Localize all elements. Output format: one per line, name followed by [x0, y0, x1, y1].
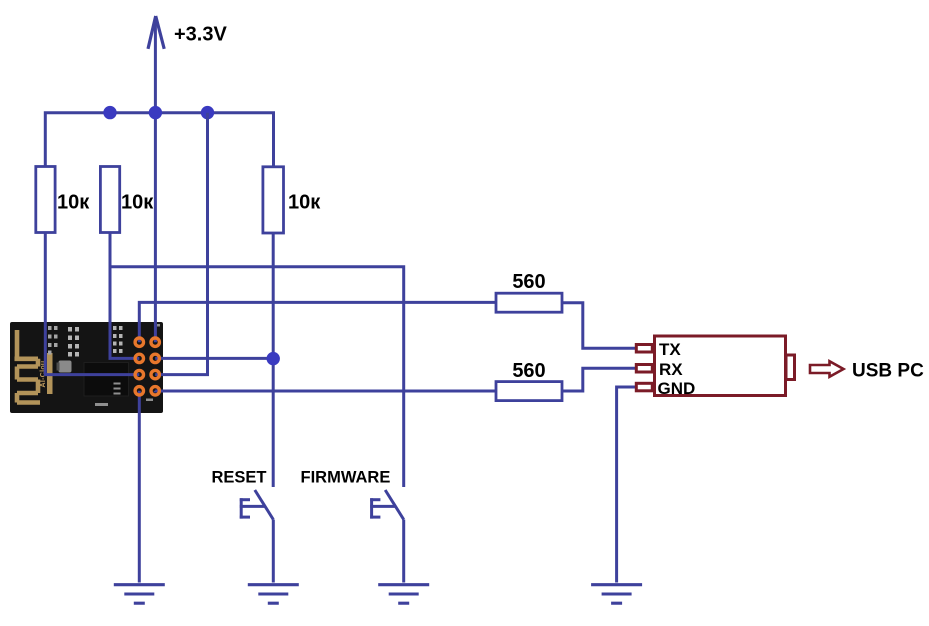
resistor R2 10k — [100, 167, 119, 233]
power symbol +3.3V arrow — [148, 16, 164, 49]
crystal — [59, 361, 72, 373]
node dot RST junction — [267, 352, 280, 365]
svg-text:RESET: RESET — [212, 469, 267, 487]
wire FIRMWARE to ground — [402, 520, 405, 583]
svg-text:560: 560 — [512, 360, 545, 382]
resistor R1 10k — [36, 167, 55, 233]
ground GND1 (ESP) — [114, 585, 165, 604]
pushbutton SW1 RESET — [240, 490, 273, 520]
svg-text:TX: TX — [659, 340, 681, 359]
svg-text:RX: RX — [659, 360, 683, 379]
wire ESP ground — [138, 391, 141, 583]
smd pads cluster A — [48, 326, 58, 355]
wire 560 R4 to TX stub — [562, 303, 635, 349]
ground GND2 (RESET) — [248, 585, 299, 604]
wire GPIO0 branch to FIRMWARE — [110, 267, 404, 487]
ESP-01 module U1 (photo) — [10, 322, 163, 413]
wire CH_PD: bus dot3 down to pin row3 right — [155, 113, 207, 375]
pin ring row1 left — [135, 338, 143, 346]
resistor R5 560 — [496, 382, 562, 401]
USB serial adapter U2 — [655, 336, 786, 396]
wire RESET to ground — [272, 520, 275, 583]
wire R3/RESET vertical — [272, 233, 275, 487]
resistor R3 10k — [263, 167, 284, 233]
antenna trace — [15, 330, 41, 403]
svg-text:10к: 10к — [121, 192, 154, 214]
pin ring row2 left — [135, 354, 143, 362]
wire RST net: pin row2 right to junction — [155, 357, 273, 360]
wire: 3.3V bus — [45, 113, 273, 167]
wire RX net: pin row4 right to 560 R5 — [155, 389, 496, 392]
pin rings ESP header — [135, 338, 159, 395]
svg-text:+3.3V: +3.3V — [174, 24, 227, 46]
svg-text:FIRMWARE: FIRMWARE — [301, 469, 391, 487]
wire TX net: pin row1 left to 560 R4 — [139, 302, 496, 342]
USB connector tab — [786, 355, 795, 380]
svg-text:GND: GND — [658, 379, 696, 398]
pin ring row4 left — [135, 387, 143, 395]
svg-text:10к: 10к — [288, 192, 321, 214]
USB PC block arrow — [810, 361, 844, 377]
svg-text:10к: 10к — [57, 192, 90, 214]
node dot bus-CHPD — [201, 106, 214, 119]
svg-text:USB PC: USB PC — [852, 361, 924, 382]
wire 560 R5 to RX stub — [562, 368, 635, 391]
wire: power shaft x=155.4 — [154, 18, 157, 342]
pin ring row2 right — [151, 354, 159, 362]
ground GND3 (FIRMWARE) — [378, 585, 429, 604]
silk specks — [88, 324, 160, 406]
node dot bus-R2 — [103, 106, 116, 119]
pin stub TX — [636, 345, 652, 353]
ground GND4 (USB serial) — [591, 585, 642, 604]
pin ring row1 right — [151, 338, 159, 346]
smd pads cluster B — [68, 327, 79, 357]
smd pads cluster C — [113, 326, 123, 353]
node dot bus-power — [149, 106, 162, 119]
pin stub RX — [636, 365, 652, 373]
svg-text:560: 560 — [512, 271, 545, 293]
pushbutton SW2 FIRMWARE — [370, 490, 404, 520]
wire GND stub to ground — [617, 387, 635, 583]
resistor R4 560 — [496, 293, 562, 312]
wire R1 to pin row3 left — [45, 233, 139, 375]
pin ring row3 right — [151, 370, 159, 378]
pin stub GND — [636, 383, 652, 391]
pin ring row3 left — [135, 370, 143, 378]
wire R2 to pin row2 left — [110, 233, 139, 359]
pin ring row4 right — [151, 387, 159, 395]
